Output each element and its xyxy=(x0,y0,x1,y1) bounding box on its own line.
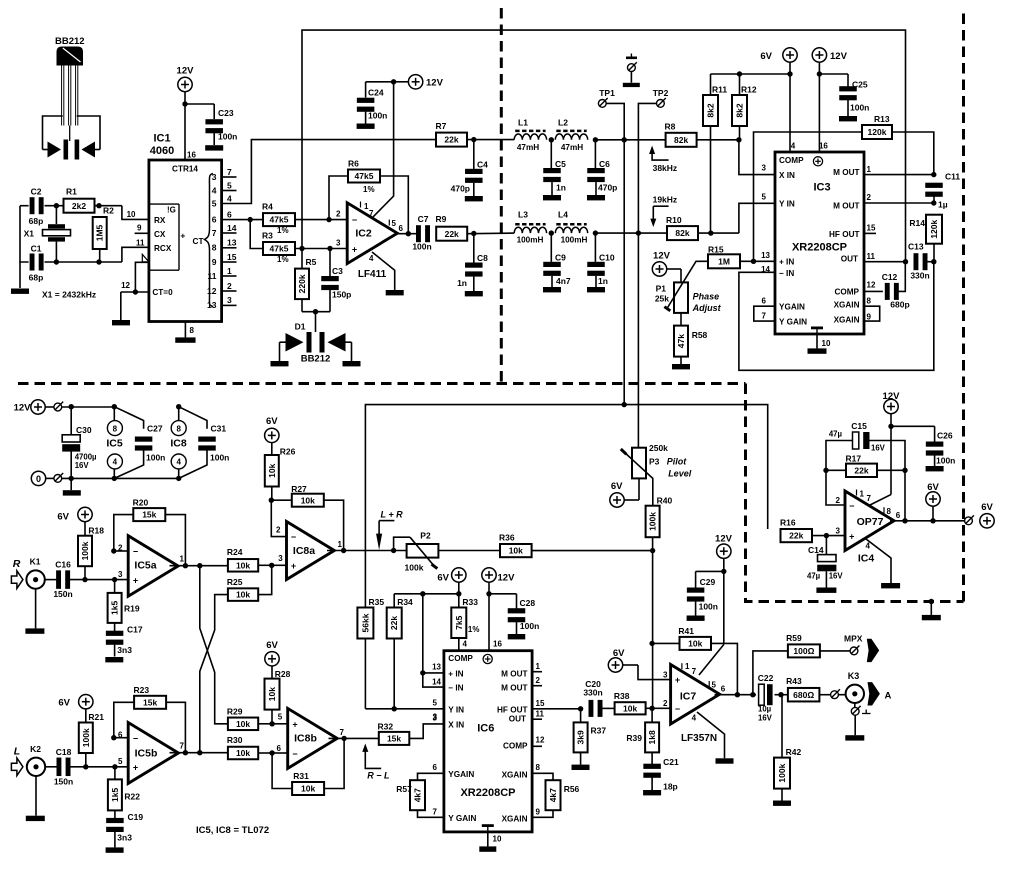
wire: pilot line TP2 down to P3 xyxy=(637,233,639,448)
wire: IC4 output 6V node xyxy=(890,518,965,523)
wire: 6V to IC6 +IN bias xyxy=(394,591,461,687)
svg-text:−: − xyxy=(133,734,138,744)
wire: K1 line to IC5a pin3 xyxy=(70,577,128,582)
svg-text:R28: R28 xyxy=(275,669,291,679)
wire: IC5b output xyxy=(170,750,228,755)
svg-text:7: 7 xyxy=(762,311,767,320)
svg-text:+ IN: + IN xyxy=(448,669,463,678)
svg-text:12: 12 xyxy=(867,281,876,290)
svg-text:+: + xyxy=(291,561,296,571)
power 6V output tap xyxy=(926,482,940,521)
wire: OUT pin11 node xyxy=(864,259,908,264)
svg-text:12V: 12V xyxy=(177,66,195,77)
wire: IC8a pin3 node xyxy=(269,554,287,568)
capacitor C13 xyxy=(908,242,937,281)
svg-text:IC8a: IC8a xyxy=(293,545,315,557)
svg-text:R17: R17 xyxy=(846,454,862,464)
resistor R28 xyxy=(265,669,291,724)
svg-text:47k: 47k xyxy=(676,334,686,348)
svg-text:5: 5 xyxy=(712,681,717,690)
svg-text:K2: K2 xyxy=(30,744,41,754)
svg-text:12: 12 xyxy=(207,286,217,296)
svg-text:68p: 68p xyxy=(29,273,44,283)
IC6 left pin labels xyxy=(432,662,476,823)
svg-text:100mH: 100mH xyxy=(517,236,544,245)
svg-text:68p: 68p xyxy=(29,216,44,226)
svg-text:12: 12 xyxy=(536,736,545,745)
svg-text:R42: R42 xyxy=(786,747,802,757)
svg-text:22k: 22k xyxy=(444,135,458,145)
svg-text:R59: R59 xyxy=(786,633,802,643)
svg-text:4: 4 xyxy=(212,185,217,195)
svg-text:2: 2 xyxy=(536,676,541,685)
resistor R41 feedback xyxy=(652,626,737,695)
svg-text:C10: C10 xyxy=(599,253,615,263)
resistor R22 xyxy=(108,767,140,811)
svg-text:C1: C1 xyxy=(31,244,42,254)
svg-text:4: 4 xyxy=(463,640,468,649)
svg-text:1%: 1% xyxy=(277,255,289,264)
ground at K1 xyxy=(25,589,44,634)
svg-text:3: 3 xyxy=(433,714,438,723)
svg-text:R13: R13 xyxy=(874,114,890,124)
IC1 clock edge symbol xyxy=(135,254,149,292)
IC6 pin 10 ground xyxy=(479,824,502,852)
svg-text:8: 8 xyxy=(190,326,195,335)
capacitor C28 xyxy=(486,591,539,639)
capacitor C2 xyxy=(29,187,44,227)
svg-text:47µ: 47µ xyxy=(807,572,821,581)
svg-text:5: 5 xyxy=(227,180,232,190)
svg-text:15k: 15k xyxy=(387,734,401,744)
annotation 19kHz xyxy=(650,195,677,228)
svg-text:COMP: COMP xyxy=(503,742,528,751)
shield dashed vertical top xyxy=(500,8,503,384)
IC3 left pin labels xyxy=(761,164,807,327)
svg-text:A: A xyxy=(885,691,892,702)
capacitor C8 xyxy=(457,234,488,297)
svg-text:P1: P1 xyxy=(656,284,667,294)
svg-text:4n7: 4n7 xyxy=(556,276,571,286)
svg-text:3: 3 xyxy=(212,172,217,182)
svg-text:100k: 100k xyxy=(405,563,424,573)
svg-text:1µ: 1µ xyxy=(938,200,948,210)
svg-text:R − L: R − L xyxy=(367,771,389,781)
svg-text:16: 16 xyxy=(819,142,828,151)
resistor R2 xyxy=(93,206,114,263)
svg-text:+: + xyxy=(292,720,297,730)
svg-text:4: 4 xyxy=(791,142,796,151)
svg-text:1: 1 xyxy=(227,266,232,276)
capacitor C10 xyxy=(587,233,615,292)
inductor L1 xyxy=(514,118,546,152)
wire: 38kHz line from R7 to L1 xyxy=(467,137,514,142)
svg-text:R26: R26 xyxy=(280,447,296,457)
resistor R57 on YGAIN pins xyxy=(396,773,444,817)
svg-text:5: 5 xyxy=(433,699,438,708)
wire: X line R8 to IC3 xyxy=(697,137,775,175)
svg-text:8: 8 xyxy=(113,424,118,433)
svg-text:3: 3 xyxy=(278,554,283,563)
svg-text:100n: 100n xyxy=(850,103,869,113)
wire: R4 to IC2 pin2 xyxy=(295,217,347,222)
jack K1 xyxy=(26,557,56,589)
wire: IC2 pin7 to 12V xyxy=(372,82,394,218)
svg-text:10k: 10k xyxy=(688,639,702,649)
svg-text:2: 2 xyxy=(276,526,281,535)
svg-text:6: 6 xyxy=(896,511,901,520)
svg-text:COMP: COMP xyxy=(779,156,804,165)
svg-text:3k9: 3k9 xyxy=(576,730,586,744)
svg-text:7k5: 7k5 xyxy=(454,615,464,629)
label Pilot Level xyxy=(667,457,692,479)
svg-text:3: 3 xyxy=(836,526,841,535)
svg-text:47k5: 47k5 xyxy=(270,215,289,225)
capacitor C21 xyxy=(643,752,679,791)
wire: IC2 pin4 to ground xyxy=(372,252,404,295)
svg-text:100n: 100n xyxy=(210,453,229,463)
wire: 12V to IC7 pin7 xyxy=(699,645,724,676)
svg-text:100k: 100k xyxy=(648,512,658,531)
resistor R43 xyxy=(778,676,830,701)
svg-text:C30: C30 xyxy=(76,425,92,435)
resistor R35 xyxy=(357,597,384,709)
svg-text:XGAIN: XGAIN xyxy=(502,815,528,824)
inductor L3 xyxy=(514,210,546,245)
svg-text:TP2: TP2 xyxy=(653,88,669,98)
svg-text:4: 4 xyxy=(227,193,232,203)
ground at 0V rail xyxy=(63,478,81,495)
svg-text:9: 9 xyxy=(867,312,872,321)
resistor R39 xyxy=(626,708,659,752)
svg-text:YGAIN: YGAIN xyxy=(779,303,805,312)
svg-text:C22: C22 xyxy=(758,673,774,683)
svg-text:5: 5 xyxy=(118,757,123,766)
svg-text:R18: R18 xyxy=(88,526,104,536)
svg-text:R22: R22 xyxy=(124,792,140,802)
svg-text:R16: R16 xyxy=(780,518,796,528)
IC1 box xyxy=(149,133,222,322)
svg-text:R40: R40 xyxy=(657,496,673,506)
crystal X1 xyxy=(24,206,71,262)
svg-text:10k: 10k xyxy=(236,590,250,600)
resistor R13 xyxy=(754,114,934,261)
svg-text:C13: C13 xyxy=(908,242,924,252)
svg-text:C8: C8 xyxy=(477,253,488,263)
power 12V at P1 xyxy=(652,251,681,283)
wire: IC7 output node xyxy=(715,692,757,697)
wire: IC7 pin4 to ground xyxy=(697,712,734,764)
svg-text:+ IN: + IN xyxy=(779,258,794,267)
svg-text:3: 3 xyxy=(118,570,123,579)
svg-text:−: − xyxy=(133,547,138,557)
svg-text:M OUT: M OUT xyxy=(833,201,859,210)
svg-text:8: 8 xyxy=(867,297,872,306)
capacitor C18 xyxy=(54,747,73,787)
svg-text:100k: 100k xyxy=(777,763,787,782)
svg-text:L4: L4 xyxy=(558,210,568,220)
svg-text:6: 6 xyxy=(277,744,282,753)
potentiometer P3 xyxy=(621,443,668,506)
svg-text:RX: RX xyxy=(154,216,166,225)
wire: crossover X xyxy=(200,566,228,753)
svg-text:LF357N: LF357N xyxy=(681,733,717,744)
svg-text:13: 13 xyxy=(432,662,441,671)
resistor R56 on XGAIN pins xyxy=(532,773,579,817)
capacitor C19 xyxy=(106,810,143,847)
IC6 box xyxy=(444,651,532,832)
svg-text:IC5, IC8 = TL072: IC5, IC8 = TL072 xyxy=(196,825,269,836)
svg-text:4060: 4060 xyxy=(150,145,174,157)
svg-text:R6: R6 xyxy=(348,159,359,169)
svg-text:10k: 10k xyxy=(236,560,250,570)
svg-text:C21: C21 xyxy=(663,757,679,767)
resistor R38 xyxy=(614,691,671,714)
capacitor C4 xyxy=(451,140,489,202)
svg-text:HF OUT: HF OUT xyxy=(497,706,527,715)
svg-text:4: 4 xyxy=(113,458,118,467)
svg-text:CX: CX xyxy=(154,230,166,239)
svg-text:330n: 330n xyxy=(910,271,929,281)
svg-text:Y GAIN: Y GAIN xyxy=(448,814,476,823)
svg-text:XGAIN: XGAIN xyxy=(834,301,860,310)
svg-text:12V: 12V xyxy=(14,403,32,414)
svg-text:3n3: 3n3 xyxy=(117,645,132,655)
IC3 right pin labels xyxy=(829,165,876,325)
svg-text:18p: 18p xyxy=(663,782,678,792)
svg-text:16V: 16V xyxy=(75,461,90,470)
svg-text:R25: R25 xyxy=(227,577,243,587)
svg-text:C15: C15 xyxy=(851,421,867,431)
svg-text:1%: 1% xyxy=(277,226,289,235)
svg-text:6V: 6V xyxy=(981,502,993,513)
K3 sleeve to ground xyxy=(845,703,870,741)
connector 6V out xyxy=(965,502,995,528)
svg-text:+: + xyxy=(133,763,138,773)
resistor R25 xyxy=(227,565,272,601)
svg-text:L + R: L + R xyxy=(381,510,404,520)
svg-text:+: + xyxy=(133,575,138,585)
svg-text:15k: 15k xyxy=(143,697,157,707)
power 6V at R26 xyxy=(265,416,279,455)
power 6V at P3 xyxy=(610,478,639,507)
annotation L+R xyxy=(376,510,403,551)
power 12V at IC2 xyxy=(391,75,444,89)
ground at C19 xyxy=(106,847,124,852)
svg-text:R4: R4 xyxy=(262,202,273,212)
svg-text:6V: 6V xyxy=(266,416,278,427)
wire: HF OUT to C20 xyxy=(532,706,583,711)
resistor R21 xyxy=(79,712,104,767)
op-amp IC2 xyxy=(336,202,403,281)
svg-text:7: 7 xyxy=(227,167,232,177)
svg-text:25k: 25k xyxy=(655,294,669,304)
svg-text:R5: R5 xyxy=(306,257,317,267)
svg-text:2k2: 2k2 xyxy=(72,201,86,211)
svg-text:7: 7 xyxy=(692,667,697,676)
ground at K2 xyxy=(26,776,45,821)
svg-text:7: 7 xyxy=(340,728,345,737)
capacitor C29 xyxy=(687,569,727,621)
svg-text:D1: D1 xyxy=(295,322,306,332)
svg-text:−: − xyxy=(292,749,297,759)
svg-text:8: 8 xyxy=(887,507,892,516)
power 12V at IC6 xyxy=(482,568,515,651)
svg-text:R12: R12 xyxy=(741,85,757,95)
svg-text:RCX: RCX xyxy=(154,244,172,253)
svg-text:3: 3 xyxy=(663,670,668,679)
svg-text:R36: R36 xyxy=(499,533,515,543)
power 12V at IC7 xyxy=(715,534,733,645)
svg-text:R32: R32 xyxy=(378,722,394,732)
resistor R27 feedback xyxy=(269,484,344,551)
resistor R30 xyxy=(227,735,272,759)
svg-text:680Ω: 680Ω xyxy=(793,690,814,700)
svg-text:L1: L1 xyxy=(518,118,528,128)
svg-text:6V: 6V xyxy=(760,51,772,62)
svg-text:9: 9 xyxy=(212,257,217,267)
svg-text:56kk: 56kk xyxy=(360,613,370,632)
svg-text:100mH: 100mH xyxy=(561,236,588,245)
svg-text:120k: 120k xyxy=(929,219,939,238)
wire: IC8b pin6 node xyxy=(269,750,287,755)
ground at C17 xyxy=(105,657,123,662)
ground at R37 xyxy=(572,765,590,770)
svg-text:11: 11 xyxy=(867,252,876,261)
ground at C1/C2 xyxy=(11,262,29,294)
capacitor C25 xyxy=(817,71,870,121)
svg-text:IC5: IC5 xyxy=(106,438,123,450)
svg-text:12V: 12V xyxy=(498,573,516,584)
svg-text:250k: 250k xyxy=(649,443,668,453)
svg-text:CT=0: CT=0 xyxy=(152,288,173,297)
capacitor C16 xyxy=(53,560,72,600)
svg-text:120k: 120k xyxy=(868,127,887,137)
svg-text:R39: R39 xyxy=(626,733,642,743)
svg-text:IC4: IC4 xyxy=(858,553,875,565)
svg-text:7: 7 xyxy=(180,742,185,751)
svg-text:C26: C26 xyxy=(937,431,953,441)
svg-text:220k: 220k xyxy=(297,274,307,293)
svg-text:C24: C24 xyxy=(368,88,384,98)
svg-text:Y GAIN: Y GAIN xyxy=(779,318,807,327)
svg-text:12V: 12V xyxy=(715,534,733,545)
power 12V at IC4 xyxy=(883,391,901,495)
capacitor C23 xyxy=(182,101,237,150)
wire: 38kHz node down to reference line xyxy=(623,140,625,405)
svg-text:R34: R34 xyxy=(397,597,413,607)
svg-text:C4: C4 xyxy=(477,160,488,170)
capacitor C7 xyxy=(412,214,431,252)
IC1 CT+ and brace xyxy=(180,174,213,307)
capacitor C24 xyxy=(357,82,394,129)
svg-text:K3: K3 xyxy=(848,671,860,681)
svg-text:15k: 15k xyxy=(142,510,156,520)
svg-text:5: 5 xyxy=(212,198,217,208)
IC1 pin 11 label xyxy=(136,238,145,247)
capacitor C22 xyxy=(758,673,788,723)
svg-text:R37: R37 xyxy=(591,726,607,736)
svg-text:6: 6 xyxy=(433,763,438,772)
svg-text:10µ: 10µ xyxy=(758,705,772,714)
power 12V input xyxy=(14,400,116,414)
svg-text:LF411: LF411 xyxy=(358,269,387,280)
svg-text:1M: 1M xyxy=(718,256,730,266)
resistor R20 feedback xyxy=(111,498,185,566)
svg-text:P3: P3 xyxy=(649,457,660,467)
capacitor C17 xyxy=(106,623,143,657)
svg-text:1: 1 xyxy=(860,490,865,499)
svg-text:11: 11 xyxy=(136,238,145,247)
wire: IC4 feedback loop xyxy=(823,441,852,506)
svg-text:OUT: OUT xyxy=(509,714,526,723)
op-amp IC8a xyxy=(271,500,342,579)
svg-text:R29: R29 xyxy=(227,707,243,717)
svg-text:XR2208CP: XR2208CP xyxy=(460,787,515,799)
svg-text:HF OUT: HF OUT xyxy=(829,230,859,239)
op-amp IC8b xyxy=(277,708,345,768)
resistor R36 xyxy=(499,533,655,558)
svg-text:C6: C6 xyxy=(599,159,610,169)
svg-text:3: 3 xyxy=(336,239,341,248)
resistor R5 xyxy=(295,249,317,312)
svg-text:C14: C14 xyxy=(808,545,824,555)
resistor R29 xyxy=(227,707,272,731)
svg-text:11: 11 xyxy=(208,271,217,281)
svg-text:82k: 82k xyxy=(674,135,688,145)
IC1 pin 10 label xyxy=(127,210,136,219)
svg-text:R58: R58 xyxy=(692,330,708,340)
svg-text:OUT: OUT xyxy=(841,255,858,264)
svg-text:330n: 330n xyxy=(583,688,602,698)
svg-text:100n: 100n xyxy=(699,602,718,612)
wire: oscillator top row xyxy=(20,206,149,220)
connector MPX xyxy=(844,634,879,663)
BB212 varactor symbol in bracket xyxy=(43,116,101,160)
svg-text:IC6: IC6 xyxy=(477,723,494,735)
svg-text:47k5: 47k5 xyxy=(355,171,374,181)
svg-text:13: 13 xyxy=(207,300,217,310)
svg-text:2: 2 xyxy=(836,496,841,505)
svg-text:22k: 22k xyxy=(789,531,803,541)
power 6V at IC3 xyxy=(760,48,797,152)
svg-text:8: 8 xyxy=(536,763,541,772)
svg-text:47mH: 47mH xyxy=(517,143,539,152)
svg-text:3n3: 3n3 xyxy=(117,832,132,842)
svg-text:2: 2 xyxy=(336,210,341,219)
svg-text:−: − xyxy=(352,215,357,225)
ground at R42 xyxy=(773,801,791,806)
svg-text:22k: 22k xyxy=(854,465,868,475)
svg-text:8k2: 8k2 xyxy=(735,103,745,117)
IC3 pin 10 ground xyxy=(808,327,831,354)
svg-text:38kHz: 38kHz xyxy=(653,163,678,173)
svg-text:8: 8 xyxy=(212,243,217,253)
svg-text:R8: R8 xyxy=(665,122,676,132)
svg-text:2: 2 xyxy=(227,281,232,291)
svg-text:R30: R30 xyxy=(227,735,243,745)
svg-text:X1: X1 xyxy=(24,229,35,239)
potentiometer P2 xyxy=(394,531,500,573)
resistor R10 xyxy=(666,215,698,240)
svg-text:M OUT: M OUT xyxy=(501,669,527,678)
varactor D1 BB212 xyxy=(280,309,352,365)
wire: 38kHz line to R8 xyxy=(595,137,665,142)
svg-text:6V: 6V xyxy=(611,481,623,492)
svg-text:R9: R9 xyxy=(436,214,447,224)
resistor R24 xyxy=(227,547,272,572)
power 6V at R18 xyxy=(57,507,92,535)
